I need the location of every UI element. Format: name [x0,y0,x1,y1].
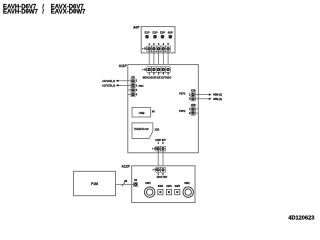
svg-text:A1P(CEL)2: A1P(CEL)2 [102,84,116,87]
connector block A0P (box) [141,27,175,53]
P3P2 pin numbers [189,107,191,115]
label H1 (A0P side) [142,48,148,51]
wire P1P2 pin2 exit [195,98,208,100]
SD card slot TARJETA SD (box) [132,123,153,138]
USB port (box) [132,107,150,117]
display board A12P (box) [132,166,195,203]
operator panel P1M (box) [74,171,116,195]
pin numbers 1-5 (A0P side) [148,42,169,46]
label X6 (A11P side) [152,148,157,151]
svg-text:A11P: A11P [119,64,128,68]
DISP INT pin numbers (A11P side) [157,141,164,145]
svg-text:H5M-(1): H5M-(1) [213,98,222,101]
svg-text:X3B: X3B [191,89,196,92]
svg-text:USB: USB [139,111,145,115]
svg-text:P3P2: P3P2 [179,110,186,113]
svg-text:A1P(CEL)1: A1P(CEL)1 [102,80,116,83]
wire pin4 A0P to A11P [162,49,164,70]
svg-text:A12P: A12P [122,164,131,168]
svg-text:INDICADOR DE ESTADO: INDICADOR DE ESTADO [143,77,172,80]
svg-text:DISP INT: DISP INT [157,176,168,179]
connector P5U pin column (pins 1-4) [131,79,135,97]
svg-text:SW2: SW2 [184,182,190,185]
svg-text:E1P: E1P [145,30,150,34]
LED E1P [145,30,150,38]
wire P1M to A12P [116,183,134,185]
svg-text:SW3: SW3 [158,185,164,188]
svg-text:H5M-(2): H5M-(2) [213,94,222,97]
push button SW3 [158,185,164,195]
wire pin5 A0P to A11P [167,49,169,70]
svg-text:E3P: E3P [160,30,165,34]
svg-text:4D120623: 4D120623 [288,216,314,222]
svg-text:EAVX-D9W7: EAVX-D9W7 [51,10,86,16]
svg-text:SW4: SW4 [166,185,172,188]
connector X6 pin row (A11P side, pins 1-2) [156,146,166,151]
rotary switch SW2 [183,182,193,197]
LED 0HP [168,30,173,38]
wire DISP INT 2 [162,149,164,170]
arrow right pin2 [209,98,212,100]
connector P3P2 pin column (pins 1-2) [191,107,195,115]
P1P2 pin numbers [189,93,191,101]
arrow left pin2 [116,84,119,86]
wire P5U pin2 exit [118,84,131,86]
push button SW4 [166,185,172,195]
arrow right pin1 [209,93,212,95]
svg-text:P1P2: P1P2 [179,92,186,95]
DISP INT pin numbers (A12P side) [157,172,164,176]
wire pin1 A0P to A11P [148,49,150,70]
svg-text:0HP: 0HP [168,30,173,34]
connector X6 pin (A12P left) [134,182,138,186]
svg-text:SW5: SW5 [175,185,181,188]
svg-text:P1M: P1M [91,182,98,186]
svg-text:A0P: A0P [133,26,140,30]
connector H1 pin row (A0P side, pins 1-5) [147,46,170,52]
P5U pin numbers [136,79,138,97]
LED E2P [153,30,158,38]
wire pin3 A0P to A11P [158,49,160,70]
label X1 (A12P side) [153,169,158,172]
title text EAVH/EAVX models [3,4,86,15]
arrow left pin1 [116,80,119,82]
svg-text:X5B: X5B [191,104,196,107]
push button SW5 [175,185,181,195]
svg-text:P5U: P5U [139,85,144,88]
main board A11P (box) [128,65,199,153]
svg-text:X1B: X1B [155,129,160,132]
wire stub P3P2 pin1 [195,108,198,110]
connector P1P2 pin column (pins 1-2) [191,93,195,101]
wire pin2 A0P to A11P [153,49,155,70]
wire P5U pin1 exit [118,80,131,82]
label H1 (A11P side) [142,68,148,71]
wire stub P5U pin4 [128,93,131,95]
pin numbers 1-5 (A11P side) [148,72,169,76]
rotary switch SW1 [145,182,155,197]
wire stub P3P2 pin2 [195,112,198,114]
svg-text:EAVH-D9W7: EAVH-D9W7 [3,10,39,16]
LED E3P [160,30,165,38]
svg-text:TARJETA SD: TARJETA SD [134,128,149,131]
wire stub P5U pin3 [128,89,131,91]
svg-text:E2P: E2P [153,30,158,34]
wire P1P2 pin1 exit [195,94,208,96]
wire DISP INT 1 [157,149,159,170]
svg-text:SW1: SW1 [145,182,151,185]
cable slash mark [122,183,125,187]
connector H1 pin row (A11P side, pins 1-5) [147,67,170,73]
connector X1 pin row (A12P side, pins 1-2) [156,168,166,173]
